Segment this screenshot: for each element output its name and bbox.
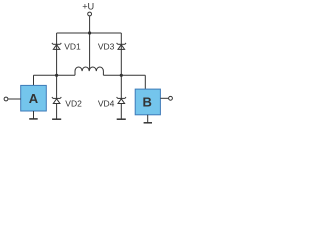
diode VD2 (52, 97, 61, 104)
inductor L1 center-tapped (75, 67, 103, 75)
wire box A to ground (33, 111, 35, 119)
svg-text:VD1: VD1 (64, 41, 81, 51)
svg-text:VD4: VD4 (98, 98, 115, 108)
wire bend into box B (144, 75, 146, 89)
ground under box B (144, 122, 152, 124)
diode VD1 (52, 43, 61, 50)
block B (135, 89, 160, 115)
wire from +U terminal to top bus and inductor center tap (89, 16, 91, 70)
ground under VD4 (117, 118, 126, 120)
terminal output right (169, 96, 173, 100)
svg-text:+U: +U (82, 2, 94, 12)
svg-text:B: B (143, 95, 152, 110)
terminal input left (4, 97, 8, 101)
wire VD2 to ground (56, 104, 58, 120)
wire bend into box A (33, 75, 35, 85)
junction mid right (120, 74, 123, 77)
wire box B to ground (147, 115, 149, 123)
terminal +U (88, 12, 92, 16)
svg-text:A: A (29, 91, 39, 106)
ground under box A (29, 118, 38, 120)
wire left column (56, 33, 58, 98)
wire box B to right terminal (160, 97, 168, 99)
diode VD4 (117, 97, 126, 104)
diode VD3 (117, 43, 126, 50)
wire right column (120, 33, 122, 98)
block A (21, 85, 47, 111)
junction top bus / +U (88, 31, 91, 34)
svg-text:VD2: VD2 (65, 98, 82, 108)
wire VD4 to ground (120, 104, 122, 120)
wire mid right (103, 74, 145, 76)
wire left terminal to box A (8, 98, 21, 100)
junction mid left (55, 74, 58, 77)
wire top bus (57, 32, 122, 34)
wire mid left (34, 74, 76, 76)
ground under VD2 (52, 118, 61, 120)
svg-text:VD3: VD3 (98, 41, 115, 51)
